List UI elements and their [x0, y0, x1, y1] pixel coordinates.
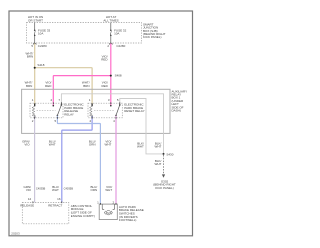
wire lt blue from release relay switch to motor	[57, 116, 100, 204]
ground G302 arrow	[162, 174, 165, 177]
node S430	[163, 153, 165, 155]
svg-text:DASH): DASH)	[172, 109, 181, 113]
svg-text:FOOTWELL): FOOTWELL)	[119, 218, 137, 222]
release relay box	[30, 103, 63, 118]
auxiliary relay box outline	[22, 89, 170, 133]
svg-text:RELEASE: RELEASE	[20, 204, 34, 208]
svg-text:ENGINE COMPT): ENGINE COMPT)	[71, 214, 95, 218]
svg-text:16: 16	[57, 197, 61, 201]
reset relay coil	[91, 103, 93, 106]
reset relay switch	[115, 115, 117, 117]
svg-text:KICK PANEL): KICK PANEL)	[143, 35, 161, 39]
node S418	[34, 67, 36, 69]
svg-text:C4035B: C4035B	[64, 187, 74, 191]
svg-text:WHT: WHT	[105, 188, 112, 192]
reset relay divider	[94, 109, 114, 111]
svg-text:S408: S408	[115, 74, 122, 78]
svg-text:KICK PANEL): KICK PANEL)	[155, 186, 173, 190]
svg-text:VIO: VIO	[26, 188, 32, 192]
fuse 32	[110, 23, 112, 31]
node S408	[110, 75, 112, 77]
svg-text:RESET RELAY: RESET RELAY	[124, 109, 144, 113]
wire tan branch from S418 to reset relay coil	[35, 68, 92, 105]
wire gray BLK/WHT from reset relay switch to S430	[120, 99, 164, 154]
svg-text:C2280: C2280	[38, 44, 47, 48]
svg-text:VIO: VIO	[24, 143, 30, 147]
svg-text:BRN: BRN	[27, 55, 33, 59]
svg-text:ORN: ORN	[91, 188, 98, 192]
release relay coil	[34, 103, 36, 106]
svg-text:S430: S430	[166, 152, 173, 156]
wire grn/vio from release relay coil to ABS module	[34, 116, 36, 202]
border frame	[9, 11, 193, 236]
svg-text:WHT: WHT	[155, 145, 162, 149]
pink stub dot in reset relay	[110, 105, 112, 107]
svg-text:ORN: ORN	[89, 143, 96, 147]
fuse 33	[34, 23, 36, 31]
wire tan from fuse 33 down to coil of release relay	[34, 43, 36, 105]
svg-text:RED: RED	[101, 58, 108, 62]
svg-text:WHT: WHT	[49, 143, 56, 147]
pink stub dot in release relay	[53, 105, 55, 107]
connector C2280 left	[33, 43, 36, 45]
wire pink from fuse 32 down to reset relay	[110, 43, 112, 106]
wire violet from reset relay switch to motor	[115, 116, 117, 204]
svg-text:BRN: BRN	[26, 84, 32, 88]
svg-text:WHT: WHT	[52, 188, 59, 192]
ABS control module box	[22, 203, 69, 224]
wire pink branch from S408 to release relay	[53, 76, 111, 106]
svg-text:C2280: C2280	[116, 44, 125, 48]
connector C2280 right	[109, 43, 112, 45]
svg-text:RETRACT: RETRACT	[48, 204, 62, 208]
svg-text:10A: 10A	[38, 32, 43, 36]
svg-text:OR START: OR START	[28, 18, 43, 22]
smart junction box dashed	[27, 23, 142, 44]
release relay switch	[57, 115, 59, 117]
release relay divider	[37, 109, 56, 111]
svg-text:ALL TIMES: ALL TIMES	[103, 18, 118, 22]
svg-text:RED: RED	[101, 84, 108, 88]
svg-text:20203: 20203	[11, 231, 20, 235]
svg-text:12: 12	[28, 197, 32, 201]
svg-text:10A: 10A	[114, 32, 119, 36]
motor M	[106, 211, 110, 215]
svg-text:S418: S418	[37, 63, 44, 67]
wire gray BLK/WHT from release relay switch to S430	[61, 94, 163, 154]
wire dashed to ground	[163, 155, 165, 174]
pin ticks	[52, 102, 54, 104]
svg-text:BRN: BRN	[83, 84, 89, 88]
svg-text:RED: RED	[45, 84, 52, 88]
parking brake motor box	[99, 204, 117, 220]
svg-text:WHT: WHT	[105, 143, 112, 147]
svg-text:WHT: WHT	[155, 162, 162, 166]
reset relay box	[88, 103, 122, 118]
svg-text:C4035B: C4035B	[36, 187, 46, 191]
svg-text:WHT: WHT	[137, 145, 144, 149]
wire blue from reset relay coil to ABS module	[62, 116, 92, 202]
svg-text:RELAY: RELAY	[64, 112, 74, 116]
